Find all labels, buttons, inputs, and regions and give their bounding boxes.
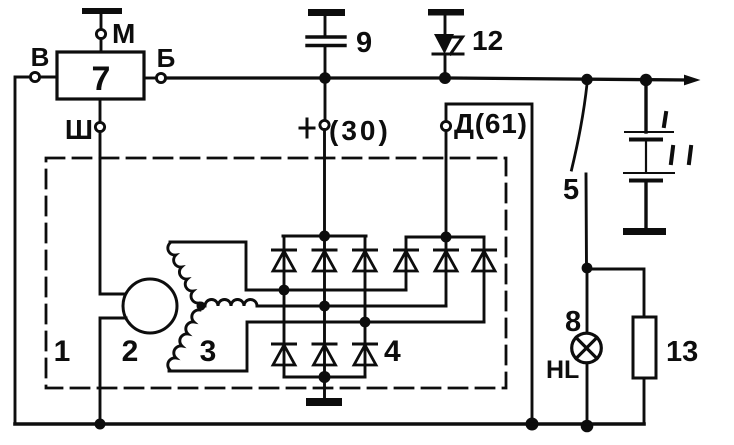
svg-text:М: М	[112, 18, 135, 49]
wire: Д(61) up over label and down right side to bottom bus	[446, 104, 532, 424]
svg-text:7: 7	[92, 60, 111, 98]
terminal +(30) (pin circle)	[320, 120, 329, 129]
wire: terminal М to regulator box	[100, 39, 103, 53]
svg-text:HL: HL	[546, 356, 579, 384]
junction: +(30) line on positive bus	[319, 231, 330, 242]
junction: rotor return on bottom bus	[95, 419, 106, 430]
ground symbol below rectifier	[306, 377, 342, 406]
dashed alternator housing box 1	[46, 158, 506, 388]
svg-text:Д(61): Д(61)	[454, 108, 528, 139]
wire: node to lamp HL	[586, 268, 589, 333]
rectifier positive bus (top of diode block 4)	[283, 235, 366, 238]
wire: terminal В to box 7	[40, 76, 57, 79]
rectifier 4: column 2 negative diode	[313, 344, 336, 377]
svg-text:(30): (30)	[329, 115, 391, 146]
label +	[300, 119, 314, 137]
resistor R13	[633, 317, 656, 378]
terminal Б (pin circle)	[156, 73, 165, 82]
label 11 (tick marks)	[664, 113, 691, 163]
wire: rotor lower lead down to bottom bus	[100, 318, 126, 424]
junction: lamp on bottom bus	[581, 420, 594, 433]
wire: phase B from coil to right diode trio	[257, 305, 446, 308]
bottom bus wire	[15, 422, 644, 426]
junction: VD12 on top bus	[439, 72, 451, 84]
auxiliary diode column 1	[395, 237, 418, 290]
lamp HL8 (circle with cross)	[572, 333, 602, 363]
ground symbol below battery	[623, 228, 666, 235]
stator winding 3: outline and phase A top edge	[170, 242, 406, 290]
stator winding 3: phase B coil	[205, 300, 257, 307]
svg-text:12: 12	[472, 25, 503, 56]
svg-text:5: 5	[563, 174, 579, 206]
wire: terminal В left then down left edge to bottom bus	[15, 77, 30, 424]
rectifier 4: column 1 positive diode	[273, 236, 296, 344]
junction: phase C tap column 3	[360, 317, 371, 328]
svg-text:2: 2	[122, 335, 139, 368]
battery GB11 lead to ground	[644, 182, 647, 229]
stator winding 3: phase C bottom edge	[169, 322, 484, 371]
rectifier 4: column 1 negative diode	[273, 344, 296, 377]
junction: switch on top bus	[581, 74, 592, 85]
wire: top bus from Б to output arrow	[166, 78, 688, 80]
junction: phase B tap column 2	[319, 301, 330, 312]
svg-text:3: 3	[200, 335, 217, 368]
junction: Д(61) branch on bottom bus	[526, 418, 539, 431]
wire: lamp to bottom bus	[586, 363, 589, 424]
stator star point	[197, 302, 206, 311]
battery GB11 cell 2 plates	[624, 173, 674, 181]
zener diode VD12 ground symbol	[428, 9, 464, 34]
stator winding 3: upper scalloped edge	[168, 243, 199, 303]
capacitor C9 plates	[307, 37, 345, 46]
svg-text:1: 1	[54, 335, 71, 368]
battery GB11 cell 1 plates	[625, 132, 673, 140]
rectifier 4: column 3 negative diode	[354, 344, 377, 377]
wire: Д(61) down to auxiliary diode bus	[445, 131, 448, 237]
battery GB11 middle link	[645, 141, 647, 172]
zener diode VD12 (filled triangle + Z bar)	[433, 34, 463, 54]
junction: C9 on top bus	[319, 72, 331, 84]
wire: +(30) down to rectifier positive bus	[323, 130, 326, 237]
rectifier 4: column 2 positive diode	[313, 236, 336, 344]
terminal Ш (pin circle) with stem from box 7	[95, 99, 104, 132]
switch S5 fixed contact wire	[585, 174, 588, 268]
wire: resistor R13 to bottom bus	[643, 378, 644, 424]
wire: box 7 to terminal Б	[144, 77, 156, 80]
output arrowhead	[684, 75, 701, 86]
capacitor C9 ground symbol	[308, 9, 345, 35]
junction: phase A tap column 1	[279, 285, 290, 296]
rectifier negative bus	[284, 376, 365, 379]
junction: negative bus to ground	[319, 371, 331, 383]
voltage regulator U7 box	[57, 52, 144, 99]
wire: capacitor C9 to top bus	[324, 47, 327, 78]
rotor field winding 2 (circle)	[123, 279, 177, 333]
terminal Д(61) (pin circle)	[441, 121, 450, 130]
junction: Д(61) on auxiliary bus	[441, 232, 452, 243]
battery GB11 lead from bus	[644, 80, 647, 132]
junction: lamp/resistor node	[582, 263, 593, 274]
svg-text:13: 13	[666, 336, 698, 368]
svg-text:В: В	[31, 42, 50, 72]
terminal М (pin circle)	[96, 29, 105, 38]
svg-text:Б: Б	[157, 43, 176, 73]
auxiliary diode column 2	[435, 237, 458, 306]
svg-text:9: 9	[356, 27, 372, 59]
ground symbol above regulator terminal M	[82, 8, 122, 29]
svg-text:4: 4	[384, 335, 401, 368]
wire: node to resistor R13	[587, 269, 644, 317]
wire: Ш down to rotor upper lead	[100, 132, 126, 294]
wire: VD12 to top bus	[444, 54, 447, 78]
junction: battery on top bus	[640, 74, 652, 86]
auxiliary diode column 3	[473, 237, 496, 322]
svg-text:Ш: Ш	[65, 114, 93, 145]
switch S5 blade (open)	[572, 84, 588, 170]
wire: bus down to terminal +(30)	[324, 78, 327, 121]
stator winding 3: lower scalloped edge	[168, 310, 200, 370]
terminal В (pin circle)	[30, 72, 39, 81]
svg-text:8: 8	[565, 306, 581, 338]
auxiliary diode trio top bus	[406, 236, 484, 239]
rectifier 4: column 3 positive diode	[354, 236, 377, 344]
